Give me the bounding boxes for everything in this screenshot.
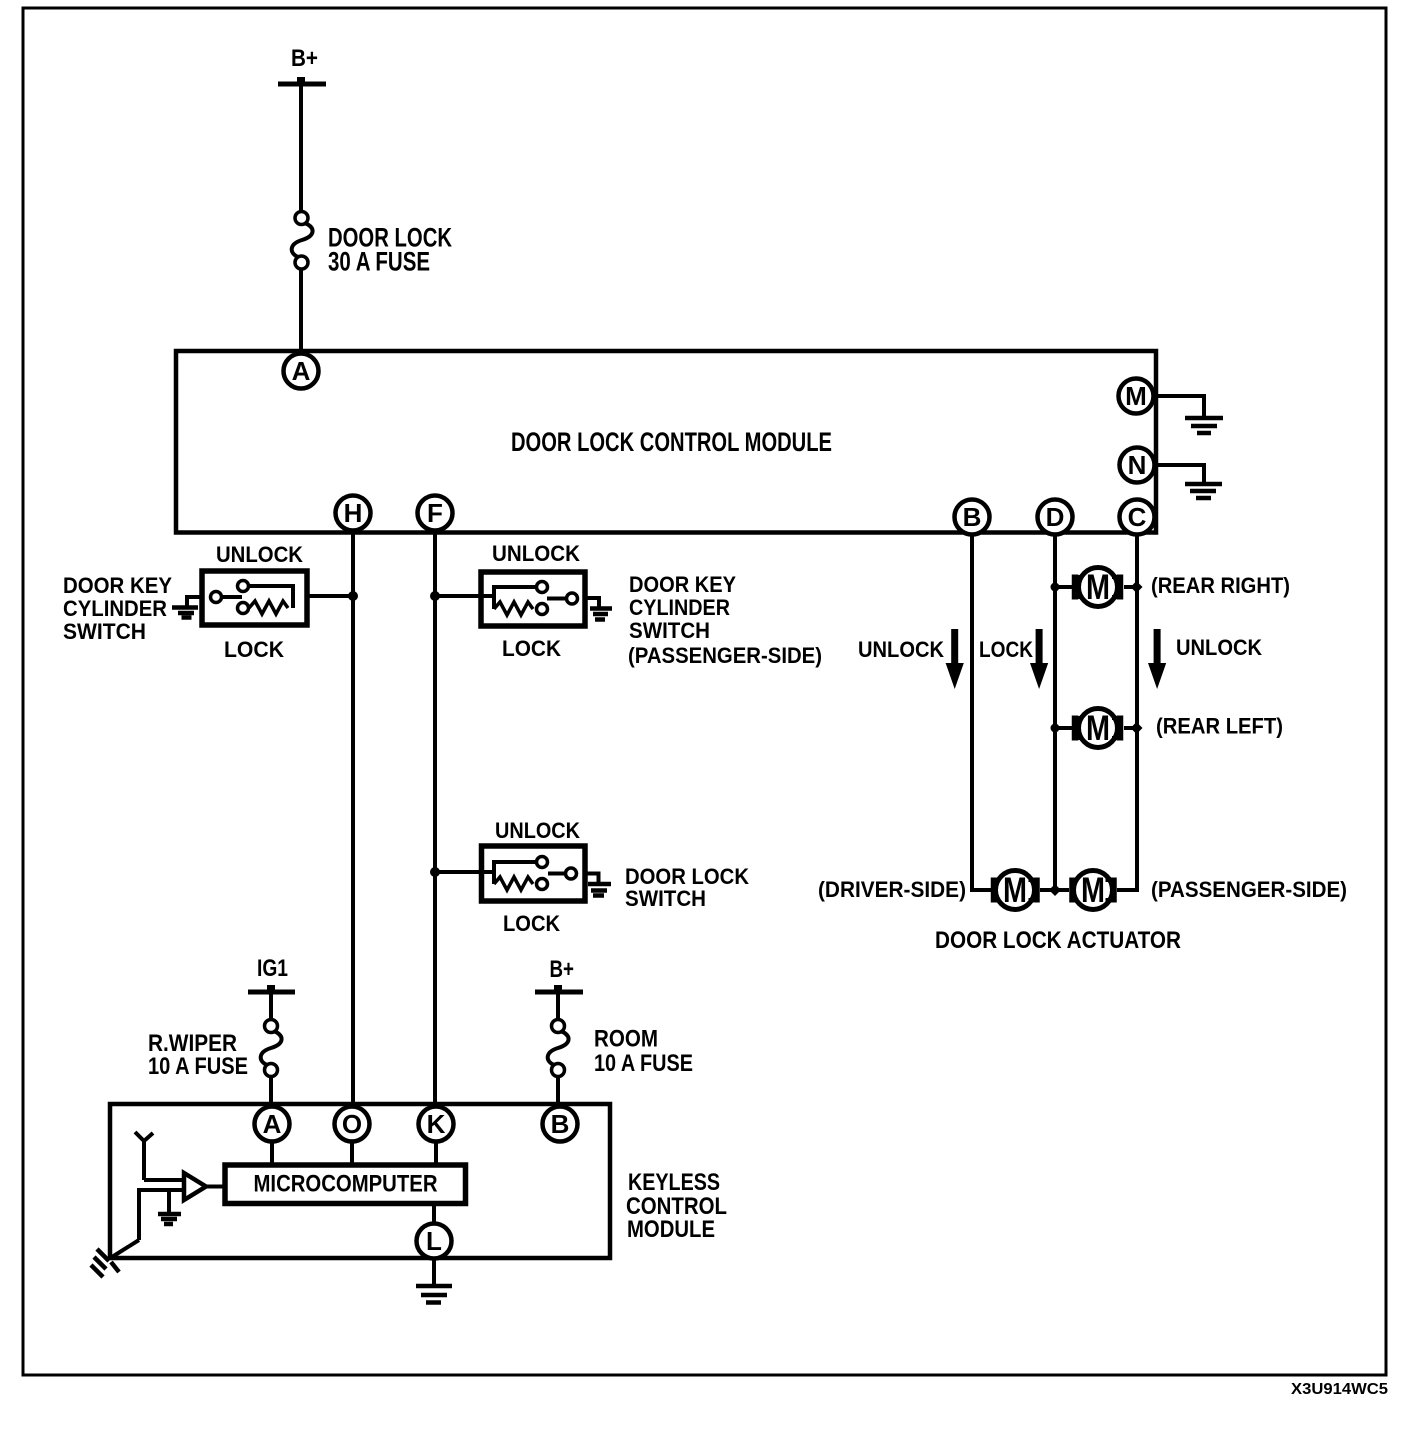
- svg-text:M: M: [1003, 871, 1027, 910]
- keyless pin K: [419, 1107, 454, 1142]
- amplifier triangle: [184, 1173, 206, 1200]
- junction net F / door lock switch: [430, 867, 440, 877]
- door lock switch unlock contact: [494, 857, 548, 868]
- wire pin N to ground: [1154, 465, 1204, 482]
- svg-text:(REAR RIGHT): (REAR RIGHT): [1151, 573, 1290, 598]
- svg-text:UNLOCK: UNLOCK: [1176, 635, 1262, 660]
- svg-text:M: M: [1086, 568, 1110, 607]
- svg-text:(DRIVER-SIDE): (DRIVER-SIDE): [818, 877, 966, 902]
- antenna: [135, 1132, 153, 1180]
- driver switch common contact: [211, 592, 243, 603]
- motor actuator driver side: [994, 871, 1052, 911]
- svg-text:H: H: [344, 498, 363, 528]
- wire antenna to amplifier: [144, 1178, 184, 1182]
- ground driver key switch: [172, 608, 198, 618]
- wire driver switch to ground: [187, 597, 202, 606]
- label DOOR LOCK 30 A FUSE: [328, 223, 452, 277]
- wire pin M to ground: [1153, 396, 1204, 416]
- door lock switch common contact: [548, 868, 577, 879]
- wire keyless pin K to microcomputer: [434, 1141, 438, 1166]
- wire net B (pin B to driver-side actuator): [972, 533, 992, 890]
- wire door lock switch to ground: [585, 874, 599, 883]
- svg-text:L: L: [426, 1226, 442, 1256]
- wire amplifier to microcomputer: [206, 1185, 225, 1189]
- wire keyless pin A to microcomputer: [270, 1141, 274, 1166]
- svg-text:N: N: [1128, 450, 1147, 480]
- wire ground branch to amplifier: [139, 1190, 184, 1240]
- fuse R.WIPER 10 A: [261, 1020, 282, 1077]
- junction net H / driver key switch: [348, 591, 358, 601]
- pin H: [336, 496, 371, 531]
- svg-text:CYLINDER: CYLINDER: [63, 596, 167, 621]
- door lock switch box: [482, 846, 586, 901]
- svg-text:UNLOCK: UNLOCK: [858, 637, 944, 662]
- wire microcomputer to pin L: [432, 1203, 436, 1224]
- svg-text:SWITCH: SWITCH: [625, 886, 706, 911]
- svg-text:DOOR KEY: DOOR KEY: [629, 572, 736, 597]
- wire net F to passenger key switch: [435, 594, 494, 598]
- ground passenger key switch: [590, 609, 612, 620]
- svg-text:M: M: [1125, 381, 1147, 411]
- ground at pin M: [1185, 418, 1223, 433]
- svg-text:UNLOCK: UNLOCK: [492, 541, 580, 566]
- junction net D / rear left motor: [1051, 724, 1060, 733]
- wire passenger switch to ground: [585, 598, 599, 607]
- fuse DOOR LOCK 30 A: [292, 212, 313, 270]
- door key cylinder switch (driver-side) box: [202, 571, 307, 625]
- driver switch unlock contact: [238, 581, 294, 592]
- svg-text:10 A FUSE: 10 A FUSE: [594, 1050, 693, 1077]
- pin C: [1120, 500, 1155, 535]
- pin A: [284, 354, 319, 389]
- svg-text:SWITCH: SWITCH: [629, 618, 710, 643]
- svg-text:30 A FUSE: 30 A FUSE: [328, 247, 430, 277]
- driver switch lock contact resistor: [238, 601, 289, 614]
- pin N: [1120, 448, 1155, 483]
- wire fuse to module pin A: [299, 268, 303, 353]
- door lock switch lock contact resistor: [494, 877, 548, 890]
- svg-text:F: F: [427, 498, 443, 528]
- wire antenna branch to chassis corner: [112, 1240, 139, 1257]
- wire keyless pin O to microcomputer: [350, 1141, 354, 1166]
- wire driver key switch to net H: [307, 594, 353, 598]
- svg-text:10 A FUSE: 10 A FUSE: [148, 1053, 248, 1080]
- wire net F (pin F to keyless pin K): [433, 531, 437, 1107]
- svg-text:MODULE: MODULE: [627, 1216, 715, 1243]
- svg-text:A: A: [263, 1109, 282, 1139]
- pin F: [418, 496, 453, 531]
- svg-text:C: C: [1128, 502, 1147, 532]
- wire fuse to keyless pin B: [556, 1076, 560, 1107]
- passenger switch lock contact resistor: [494, 602, 548, 615]
- svg-text:DOOR LOCK CONTROL MODULE: DOOR LOCK CONTROL MODULE: [511, 427, 832, 457]
- junction net D / rear right motor: [1051, 583, 1060, 592]
- wire net F to door lock switch: [435, 870, 494, 874]
- svg-text:A: A: [292, 356, 311, 386]
- wire net D (pin D down): [1053, 533, 1057, 890]
- wire fuse to keyless pin A: [269, 1076, 273, 1107]
- fuse ROOM 10 A: [548, 1020, 569, 1077]
- junction net C / rear right motor: [1131, 581, 1143, 593]
- passenger switch unlock contact: [494, 582, 548, 593]
- keyless pin O: [335, 1107, 370, 1142]
- passenger switch inner bar: [492, 585, 496, 609]
- keyless pin L: [417, 1224, 452, 1259]
- svg-text:M: M: [1086, 709, 1110, 748]
- power IG1: [248, 955, 295, 992]
- label R.WIPER 10 A FUSE: [148, 1030, 248, 1080]
- svg-text:MICROCOMPUTER: MICROCOMPUTER: [254, 1171, 438, 1198]
- svg-text:UNLOCK: UNLOCK: [495, 818, 580, 843]
- svg-text:M: M: [1081, 871, 1105, 910]
- arrow UNLOCK down (net C): [1148, 629, 1166, 689]
- wire pin L to ground: [432, 1258, 436, 1285]
- ground door lock switch: [588, 884, 611, 896]
- door lock switch inner bar: [492, 860, 496, 884]
- chassis ground (keyless module corner): [91, 1249, 119, 1277]
- junction net D / bottom motors: [1049, 884, 1061, 896]
- label DOOR LOCK SWITCH: [625, 864, 749, 911]
- ground at pin N: [1185, 484, 1222, 498]
- junction net C / rear left motor: [1131, 722, 1143, 734]
- svg-text:LOCK: LOCK: [224, 637, 284, 662]
- svg-text:DOOR KEY: DOOR KEY: [63, 573, 172, 598]
- svg-text:(PASSENGER-SIDE): (PASSENGER-SIDE): [1151, 877, 1347, 902]
- keyless pin B: [543, 1107, 578, 1142]
- motor actuator rear right: [1055, 568, 1133, 608]
- svg-text:LOCK: LOCK: [979, 637, 1033, 662]
- keyless control module box: [110, 1104, 610, 1258]
- label KEYLESS CONTROL MODULE: [626, 1169, 727, 1243]
- svg-text:(REAR LEFT): (REAR LEFT): [1156, 714, 1283, 739]
- svg-text:ROOM: ROOM: [594, 1026, 658, 1053]
- wire B+ to fuse: [556, 992, 560, 1020]
- driver switch inner bar: [291, 584, 295, 608]
- svg-text:UNLOCK: UNLOCK: [216, 542, 303, 567]
- door key cylinder switch (passenger-side) box: [481, 572, 585, 626]
- microcomputer box: [225, 1165, 466, 1204]
- arrow LOCK down (net D): [1030, 629, 1048, 689]
- keyless pin A: [255, 1107, 290, 1142]
- pin B: [955, 500, 990, 535]
- wire IG1 to fuse: [269, 992, 273, 1020]
- label DOOR KEY CYLINDER SWITCH: [63, 573, 172, 644]
- passenger switch common contact: [547, 593, 578, 604]
- wire net H (pin H to keyless pin O): [351, 531, 355, 1107]
- motor actuator rear left: [1055, 709, 1133, 749]
- svg-text:LOCK: LOCK: [503, 911, 560, 936]
- ground stub amplifier input: [167, 1190, 171, 1212]
- svg-text:LOCK: LOCK: [502, 636, 561, 661]
- svg-text:B+: B+: [550, 956, 575, 983]
- power B+ (battery feed top): [278, 45, 326, 84]
- svg-text:B: B: [963, 502, 982, 532]
- arrow UNLOCK down (net B): [946, 629, 964, 689]
- svg-text:(PASSENGER-SIDE): (PASSENGER-SIDE): [628, 643, 822, 668]
- svg-text:B+: B+: [291, 45, 318, 72]
- wire B+ to fuse: [299, 84, 303, 212]
- wire net C (pin C to passenger-side actuator): [1117, 533, 1137, 890]
- svg-text:B: B: [551, 1109, 570, 1139]
- ground (keyless pin L): [416, 1286, 452, 1303]
- motor actuator passenger side: [1055, 871, 1114, 911]
- ground (amplifier input): [158, 1214, 181, 1224]
- label DOOR KEY CYLINDER SWITCH (PASSENGER-SIDE): [628, 572, 822, 668]
- svg-text:KEYLESS: KEYLESS: [628, 1169, 720, 1196]
- svg-text:O: O: [342, 1109, 362, 1139]
- svg-text:K: K: [427, 1109, 446, 1139]
- label ROOM 10 A FUSE: [594, 1026, 693, 1078]
- pin M: [1119, 379, 1154, 414]
- junction net F / passenger key switch: [430, 591, 440, 601]
- svg-text:X3U914WC5: X3U914WC5: [1291, 1381, 1388, 1398]
- svg-text:D: D: [1046, 502, 1065, 532]
- door lock control module box: [176, 351, 1156, 533]
- svg-text:SWITCH: SWITCH: [63, 619, 146, 644]
- svg-text:IG1: IG1: [257, 955, 288, 982]
- svg-text:DOOR LOCK ACTUATOR: DOOR LOCK ACTUATOR: [935, 927, 1181, 954]
- svg-text:CYLINDER: CYLINDER: [629, 595, 730, 620]
- power B+ (room feed): [535, 956, 583, 992]
- pin D: [1038, 500, 1073, 535]
